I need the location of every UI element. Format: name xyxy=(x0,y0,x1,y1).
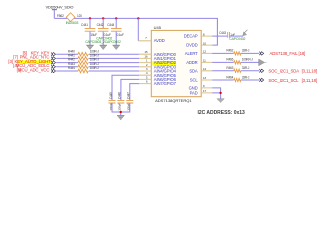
svg-text:C442: C442 xyxy=(97,23,104,27)
chevron KEY_KEY xyxy=(51,52,55,56)
svg-text:AVDD: AVDD xyxy=(154,38,165,43)
wire row5 to AIN4 xyxy=(89,70,139,72)
wire joining cap bottoms xyxy=(112,103,130,115)
svg-text:ADS7138_FAIL: ADS7138_FAIL xyxy=(270,51,299,56)
capacitor C441 xyxy=(81,18,97,45)
svg-text:R462: R462 xyxy=(226,49,233,53)
wire R463 to chevron xyxy=(241,70,259,72)
capacitor C444 xyxy=(107,18,124,45)
resistor R442 xyxy=(68,58,100,65)
highlight KEY_AUTO_LIGHT xyxy=(17,60,52,64)
wire from power symbol down to rail xyxy=(53,10,55,18)
svg-text:IND0603: IND0603 xyxy=(66,21,79,25)
wire AIN7 to C447 xyxy=(130,84,139,101)
svg-text:0.1uF: 0.1uF xyxy=(117,33,124,37)
ground C443 (diagonal arrow) xyxy=(243,30,248,36)
resistor R463 xyxy=(226,66,249,72)
ferrite bead FB62 xyxy=(57,13,82,25)
resistor R462 xyxy=(226,49,249,55)
wire C443 to ground xyxy=(230,35,243,37)
svg-text:DVDD: DVDD xyxy=(186,43,197,48)
svg-text:CAPC0603_2CAPC0402: CAPC0603_2CAPC0402 xyxy=(85,40,121,44)
left pin stubs (pins 7,15,16,1,2,3,4,5,6) xyxy=(138,41,151,84)
svg-text:[3]: [3] xyxy=(17,67,21,72)
svg-text:SCL: SCL xyxy=(190,78,199,83)
svg-text:C443: C443 xyxy=(219,31,226,35)
wire row3 xyxy=(56,62,78,64)
wire rail AVDD xyxy=(54,18,217,45)
capacitor C443 xyxy=(219,31,245,41)
svg-text:14: 14 xyxy=(203,67,207,71)
wire R464 to chevron xyxy=(241,79,259,81)
resistor R466 xyxy=(226,58,253,64)
svg-text:SOC_I2C1_SCL: SOC_I2C1_SCL xyxy=(268,78,299,83)
node junction dots on rail xyxy=(89,17,91,19)
svg-text:I2C ADDRESS: 0x13: I2C ADDRESS: 0x13 xyxy=(198,110,246,116)
resistor R464 xyxy=(226,75,249,81)
resistor R441 xyxy=(68,54,100,61)
svg-text:17: 17 xyxy=(203,89,207,93)
wire R466 to ground xyxy=(241,61,259,63)
wire SDA xyxy=(212,70,233,72)
chevron SCL out xyxy=(259,78,263,82)
wire GND/PAD join xyxy=(212,88,220,99)
svg-text:R444: R444 xyxy=(68,66,75,70)
wire DECAP to C443 xyxy=(212,35,227,37)
capacitor C447 xyxy=(126,92,133,111)
svg-text:C444: C444 xyxy=(107,23,114,27)
wire row2 xyxy=(56,57,78,59)
wire row4 xyxy=(56,66,78,68)
wire row5 xyxy=(56,70,78,72)
svg-text:R464: R464 xyxy=(226,75,233,79)
resistor R444 xyxy=(68,66,100,73)
svg-text:PAD: PAD xyxy=(190,91,198,96)
resistor R440 xyxy=(68,49,100,56)
ground under C442 xyxy=(100,45,107,50)
svg-text:FB62: FB62 xyxy=(57,14,64,18)
svg-text:ADDR: ADDR xyxy=(186,60,197,65)
op-amp U45 IC body xyxy=(151,25,201,103)
svg-text:DECAP: DECAP xyxy=(184,34,198,39)
wire R462 to chevron xyxy=(241,52,259,54)
svg-text:[3,11,18]: [3,11,18] xyxy=(302,69,317,74)
capacitor C446 xyxy=(117,92,124,111)
right pin stubs (pins 8,10,12,11,14,13,9,17) xyxy=(201,36,212,93)
svg-text:[18]: [18] xyxy=(299,51,306,56)
svg-text:[3]: [3] xyxy=(8,59,12,64)
node junction dot GND xyxy=(219,92,221,94)
svg-text:R466: R466 xyxy=(226,58,233,62)
svg-text:CAPC0402: CAPC0402 xyxy=(229,37,245,41)
svg-text:33R-J: 33R-J xyxy=(242,66,250,70)
yellow highlight AIN2/GPIO2 xyxy=(152,61,176,65)
ground under C444 xyxy=(113,45,120,50)
svg-text:33R-J: 33R-J xyxy=(242,75,250,79)
wire row3 to AIN2 xyxy=(89,62,139,64)
wire row2 to AIN1 xyxy=(89,57,139,59)
wire AVDD feed xyxy=(137,18,139,40)
svg-text:100pF: 100pF xyxy=(118,103,122,111)
chevron SDA out xyxy=(259,69,263,73)
svg-text:100KR-J: 100KR-J xyxy=(242,58,254,62)
svg-text:ALERT: ALERT xyxy=(185,51,198,56)
svg-text:33R-J: 33R-J xyxy=(242,49,250,53)
svg-text:AIN7/GPIO7: AIN7/GPIO7 xyxy=(154,81,177,86)
chevron PNL_ADC_NTC xyxy=(51,57,55,61)
wire row1 to AIN0 xyxy=(89,53,139,55)
wire ALERT xyxy=(212,52,233,54)
svg-text:[3,11,18]: [3,11,18] xyxy=(302,78,317,83)
ground under C441 xyxy=(86,45,93,50)
svg-text:120: 120 xyxy=(77,14,82,18)
svg-text:C446: C446 xyxy=(118,92,122,99)
wire SCL xyxy=(212,79,233,81)
ground ADDR (right arrow) xyxy=(259,59,267,66)
svg-text:12: 12 xyxy=(203,50,207,54)
svg-text:C447: C447 xyxy=(127,92,131,99)
svg-text:U45: U45 xyxy=(154,25,162,30)
node junction dot xyxy=(120,111,122,113)
svg-text:SOC_I2C1_SDA: SOC_I2C1_SDA xyxy=(268,69,299,74)
svg-text:VDD50HV_SDIO: VDD50HV_SDIO xyxy=(46,5,74,9)
svg-text:10: 10 xyxy=(203,41,207,45)
svg-text:MCU_ADC_VCC: MCU_ADC_VCC xyxy=(18,67,49,72)
wire row4 to AIN3 xyxy=(89,66,139,68)
wire AIN6 to C446 xyxy=(121,79,139,100)
wire AIN5 to C445 xyxy=(112,75,139,100)
svg-text:SDA: SDA xyxy=(189,68,198,73)
svg-text:C441: C441 xyxy=(81,23,88,27)
svg-text:C445: C445 xyxy=(109,92,113,99)
svg-text:100R-J: 100R-J xyxy=(90,66,100,70)
chevron ALERT out xyxy=(259,52,263,56)
wire ADDR xyxy=(212,61,233,63)
chevron MCU_ADC_EDLC xyxy=(51,65,55,69)
chevron MCU_ADC_VCC xyxy=(51,69,55,73)
capacitor C442 xyxy=(97,18,111,45)
ground main xyxy=(217,99,224,103)
capacitor C445 xyxy=(109,92,116,111)
svg-text:13: 13 xyxy=(203,76,207,80)
chevron KEY_AUTO_LIGHT xyxy=(51,61,55,65)
svg-text:ADS7138QRTERQ1: ADS7138QRTERQ1 xyxy=(155,98,192,103)
resistor R443 xyxy=(68,62,100,69)
wire row1 xyxy=(56,53,78,55)
svg-text:R463: R463 xyxy=(226,66,233,70)
power symbol VDD50HV_SDIO xyxy=(46,5,74,9)
ground bottom caps xyxy=(117,115,124,120)
svg-text:11: 11 xyxy=(203,59,206,63)
